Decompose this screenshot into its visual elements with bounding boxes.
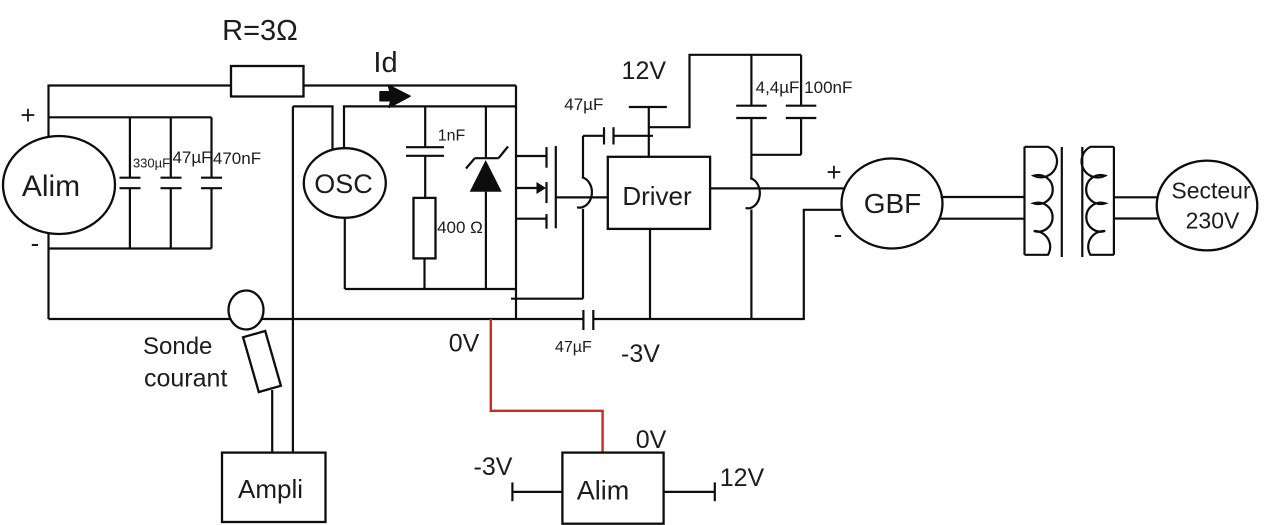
svg-text:Alim: Alim [577, 476, 630, 506]
svg-text:+: + [826, 157, 841, 187]
terminal -3V [512, 482, 562, 501]
capacitor C3 470nF [201, 117, 222, 248]
wire: GBF to transformer top [941, 196, 1026, 198]
svg-text:+: + [20, 100, 35, 130]
svg-text:230V: 230V [1186, 208, 1240, 234]
transformer T1 primary winding [1025, 147, 1057, 255]
oscillator OSC circle [304, 148, 386, 218]
driver U1 box [608, 157, 710, 229]
svg-text:4,4µF 100nF: 4,4µF 100nF [756, 78, 853, 97]
wire: red 0V link [491, 319, 603, 453]
svg-text:330µF: 330µF [133, 156, 170, 171]
supply Alim box [562, 453, 663, 524]
wire: Alim + top wire to resistor [49, 86, 232, 138]
svg-text:Alim: Alim [22, 170, 80, 203]
svg-text:GBF: GBF [864, 188, 922, 219]
svg-text:1nF: 1nF [438, 128, 466, 145]
wire: resistor to rail [423, 258, 425, 289]
wire: Driver bottom pin to bus [649, 229, 651, 319]
svg-text:47µF: 47µF [555, 339, 592, 356]
svg-text:47µF: 47µF [172, 148, 211, 167]
svg-text:Ampli: Ampli [238, 474, 303, 504]
capacitor C1 330uF [120, 117, 141, 248]
wire: resistor to MOSFET column (Id wire) [304, 84, 517, 86]
wire: hop column with jump over gate wire [577, 136, 592, 299]
capacitor C2 47uF [161, 117, 182, 248]
svg-text:12V: 12V [720, 464, 765, 492]
wire: probe to Ampli [271, 390, 273, 453]
svg-text:Id: Id [373, 47, 397, 79]
wire: top rail feed [649, 55, 801, 127]
wire: Alim minus down to bus [47, 233, 49, 319]
wire: MOSFET left column [515, 86, 517, 320]
svg-text:47µF: 47µF [564, 95, 603, 114]
svg-text:12V: 12V [622, 57, 667, 85]
power terminal 12V bar [629, 106, 667, 108]
wire: OSC bottom to rail [344, 218, 346, 289]
wire: transformer to Secteur bottom [1114, 217, 1158, 219]
resistor R2 400 ohm body [414, 198, 436, 259]
capacitor C4 47uF series in bus [583, 310, 593, 330]
svg-text:-: - [834, 219, 843, 249]
wire: OSC section bottom rail [345, 288, 516, 290]
wire: GBF to transformer bottom [940, 218, 1025, 220]
capacitor C7 4.4uF [736, 55, 767, 155]
zener diode D1 [466, 106, 508, 289]
svg-text:470nF: 470nF [213, 149, 261, 168]
capacitor C8 100nF [786, 55, 817, 155]
capacitor C6 47uF gate [583, 127, 653, 144]
generator GBF circle [842, 159, 943, 249]
amplifier Ampli box [222, 453, 326, 522]
wire: lower rail mosfet to hop column [511, 298, 583, 300]
svg-text:-: - [31, 228, 40, 258]
wire: top left segment into OSC [293, 106, 333, 156]
svg-text:courant: courant [144, 365, 227, 393]
wire: main bus left of series cap [49, 318, 584, 320]
wire: GBF minus return to bus [804, 210, 843, 319]
svg-text:Sonde: Sonde [143, 333, 212, 360]
wire: long left column down to Ampli [292, 106, 294, 452]
svg-text:OSC: OSC [314, 169, 373, 199]
wire: hop column 2 with jump over output wire [746, 155, 760, 319]
wire: transformer to Secteur top [1114, 196, 1158, 198]
svg-text:400 Ω: 400 Ω [437, 218, 483, 237]
svg-text:-3V: -3V [621, 340, 660, 368]
capacitor C5 1nF [406, 106, 444, 197]
transformer T1 secondary winding [1082, 147, 1114, 255]
wire: caps bottom rail [49, 247, 212, 249]
transistor Q1 MOSFET [516, 146, 556, 229]
source Alim circle [3, 136, 115, 234]
svg-text:-3V: -3V [474, 453, 513, 481]
wire: caps top rail [49, 116, 212, 118]
resistor R1 R=3 ohm body [231, 66, 304, 97]
svg-text:Driver: Driver [622, 181, 692, 211]
wire: 12V stub down to Driver top [648, 107, 650, 157]
svg-text:R=3Ω: R=3Ω [222, 15, 298, 47]
wire: OSC top to top rail [344, 106, 516, 147]
wire: main bus right of series cap [593, 318, 805, 320]
wire: gate to Driver [556, 196, 608, 198]
svg-text:0V: 0V [449, 330, 480, 358]
wire: caps bottom rail [751, 154, 801, 156]
terminal 12V [664, 482, 715, 501]
svg-text:0V: 0V [636, 426, 667, 454]
wire: Driver output to GBF [710, 187, 846, 189]
current probe loop [229, 291, 264, 330]
transformer T1 core [1062, 147, 1083, 257]
current arrow Id [380, 85, 410, 107]
svg-text:Secteur: Secteur [1171, 178, 1251, 204]
current probe body [243, 331, 281, 392]
mains Secteur 230V circle [1157, 161, 1258, 251]
